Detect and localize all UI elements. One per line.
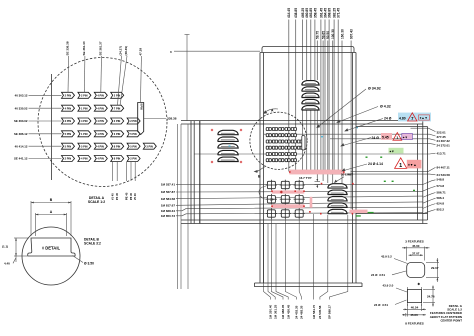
svg-text:1M 817.67: 1M 817.67 xyxy=(161,203,176,207)
top rotated dimension labels group 1 xyxy=(287,8,340,18)
dimension B xyxy=(31,201,71,236)
svg-text:84 407.11: 84 407.11 xyxy=(437,166,451,170)
left height dims of detail B xyxy=(14,238,29,262)
pink patch right xyxy=(350,210,368,213)
338.38 label right of detail A xyxy=(144,118,166,120)
svg-text:358.45: 358.45 xyxy=(313,8,317,18)
flat pattern outline: horizontal band edges xyxy=(181,121,428,224)
svg-text:#1 45: #1 45 xyxy=(111,193,115,200)
svg-text:24 Ø 3.51: 24 Ø 3.51 xyxy=(371,273,385,277)
pin tag grid in detail A xyxy=(62,92,157,161)
svg-text:24 Ø: 24 Ø xyxy=(372,136,380,140)
svg-text:40 303.12: 40 303.12 xyxy=(15,94,28,98)
svg-text:2 PIN: 2 PIN xyxy=(114,119,121,123)
svg-text:1 PIN: 1 PIN xyxy=(81,106,88,110)
svg-text:⌖▲▼: ⌖▲▼ xyxy=(419,116,428,120)
svg-text:4.80: 4.80 xyxy=(399,117,406,121)
svg-text:24 453.35: 24 453.35 xyxy=(295,305,299,319)
svg-text:40.54: 40.54 xyxy=(411,306,419,310)
arrow A top xyxy=(264,109,278,113)
svg-text:Ø 3.50: Ø 3.50 xyxy=(84,262,94,266)
svg-text:24 Ø 4.14: 24 Ø 4.14 xyxy=(368,162,383,166)
svg-text:1: 1 xyxy=(399,163,402,169)
svg-text:2 PIN: 2 PIN xyxy=(65,157,72,161)
svg-text:45.00: 45.00 xyxy=(410,313,418,317)
svg-text:5 PIN: 5 PIN xyxy=(130,132,137,136)
svg-text:414.45: 414.45 xyxy=(287,8,291,18)
svg-text:2 PIN: 2 PIN xyxy=(130,157,137,161)
svg-text:SE 441.12: SE 441.12 xyxy=(14,157,28,161)
svg-text:1M 388.35: 1M 388.35 xyxy=(281,304,285,319)
svg-text:586.71: 586.71 xyxy=(437,190,447,194)
svg-text:586.4: 586.4 xyxy=(437,196,445,200)
target square grid 3x3 xyxy=(266,180,305,219)
svg-text:P8 45: P8 45 xyxy=(129,192,133,200)
svg-text:P3 45: P3 45 xyxy=(115,192,119,200)
svg-text:3 PIN: 3 PIN xyxy=(65,119,72,123)
svg-text:4 PIN: 4 PIN xyxy=(81,157,88,161)
svg-text:2 PIN: 2 PIN xyxy=(65,93,72,97)
svg-text:37.07: 37.07 xyxy=(412,251,420,255)
svg-text:40 330.52: 40 330.52 xyxy=(15,106,28,110)
dia 3.50 leader xyxy=(73,256,84,263)
svg-text:4 PIN: 4 PIN xyxy=(97,119,104,123)
svg-text:2 PIN: 2 PIN xyxy=(130,119,137,123)
svg-text:(38.39): (38.39) xyxy=(124,46,128,56)
svg-text:(24.27): (24.27) xyxy=(119,46,123,56)
callout 24 dia 5.45 with triangle 1 (pink highlight) xyxy=(341,138,371,147)
svg-text:4.40: 4.40 xyxy=(4,262,10,266)
svg-text:4 PIN: 4 PIN xyxy=(97,93,104,97)
svg-text:1M 330.40: 1M 330.40 xyxy=(269,304,273,319)
svg-text:413.71: 413.71 xyxy=(437,152,447,156)
29.07 dim xyxy=(426,258,439,282)
svg-text:SCALE 1:2: SCALE 1:2 xyxy=(88,200,105,204)
bottom leaders of detail A xyxy=(113,162,136,181)
red corner marks left flap vents xyxy=(211,129,214,132)
svg-text:8 PIN: 8 PIN xyxy=(140,104,143,110)
svg-text:24.76: 24.76 xyxy=(427,294,435,298)
sharp feature square xyxy=(407,287,421,306)
bottom flap flange xyxy=(255,283,363,287)
base louver vents (lower right) xyxy=(328,184,348,188)
svg-text:100.30: 100.30 xyxy=(331,29,335,39)
svg-text:1M 436.45: 1M 436.45 xyxy=(286,304,290,319)
svg-text:SP 588.17: SP 588.17 xyxy=(328,305,332,319)
svg-text:438.85: 438.85 xyxy=(294,8,298,18)
svg-text:24 533.58: 24 533.58 xyxy=(437,173,451,177)
detail circle A on pattern xyxy=(250,112,307,169)
svg-text:PE 45: PE 45 xyxy=(125,192,129,200)
svg-text:⌖▼▲: ⌖▼▲ xyxy=(407,163,417,167)
dimension A xyxy=(36,213,67,236)
svg-text:24 372.01: 24 372.01 xyxy=(437,143,451,147)
svg-text:2 PIN: 2 PIN xyxy=(114,93,121,97)
svg-text:45.00: 45.00 xyxy=(412,244,420,248)
callout dia 4.32 xyxy=(337,107,378,123)
svg-text:1M 361.25: 1M 361.25 xyxy=(273,304,277,319)
svg-text:5 PIN: 5 PIN xyxy=(130,144,137,148)
detail A view circle xyxy=(38,58,167,187)
svg-text:29.07: 29.07 xyxy=(431,266,439,270)
top rotated labels of detail A xyxy=(66,41,143,55)
svg-text:4 PIN: 4 PIN xyxy=(97,106,104,110)
tall 8 PIN tag xyxy=(138,103,144,135)
svg-text:#5 46: #5 46 xyxy=(133,193,137,200)
svg-text:1M 850.73: 1M 850.73 xyxy=(161,214,176,218)
svg-text:1M 537.41: 1M 537.41 xyxy=(161,183,176,187)
svg-text:43.9 5.2: 43.9 5.2 xyxy=(381,255,392,259)
left row labels of detail A xyxy=(14,94,28,161)
top flap xyxy=(260,47,356,284)
svg-text:4 PIN: 4 PIN xyxy=(97,132,104,136)
right dimension label stack xyxy=(437,131,451,212)
svg-text:1 PIN: 1 PIN xyxy=(81,132,88,136)
detail B hat profile xyxy=(28,238,75,256)
left 1M dimension labels xyxy=(161,183,176,218)
top flap louver vents xyxy=(301,80,320,110)
pink band B xyxy=(272,190,305,193)
right stack leader lines xyxy=(194,128,436,214)
right flap lip xyxy=(356,121,428,224)
green GDT box xyxy=(389,148,404,154)
bottom rotated dimension labels xyxy=(269,304,332,319)
svg-text:5 PIN: 5 PIN xyxy=(65,132,72,136)
svg-text:574.8: 574.8 xyxy=(437,184,445,188)
svg-text:SE 363.02: SE 363.02 xyxy=(14,119,28,123)
left flap louver vents xyxy=(218,130,239,134)
vertical leader lines from top labels group1 xyxy=(289,20,338,173)
arrow B bottom xyxy=(255,166,267,171)
svg-text:5 PIN: 5 PIN xyxy=(81,144,88,148)
red micro marks on bands xyxy=(289,171,291,173)
svg-text:50 LIMIT: 50 LIMIT xyxy=(341,172,353,176)
svg-text:24 Ø 3.51: 24 Ø 3.51 xyxy=(374,303,388,307)
left dimension stack lines xyxy=(177,124,179,289)
datum line 0 xyxy=(174,50,260,52)
svg-text:3 PIN: 3 PIN xyxy=(146,144,153,148)
cyan micro marks xyxy=(229,145,231,146)
svg-text:40 414.12: 40 414.12 xyxy=(15,144,28,148)
svg-text:24 545.58: 24 545.58 xyxy=(318,305,322,319)
pink band A under detail circle xyxy=(290,170,345,174)
24.76 dim xyxy=(423,286,435,307)
svg-text:SE 361.40: SE 361.40 xyxy=(82,41,86,55)
rounded feature square xyxy=(407,263,425,278)
flap edge chord line in detail A xyxy=(51,74,53,180)
svg-text:5 PIN: 5 PIN xyxy=(65,144,72,148)
svg-text:◊ DETAIL: ◊ DETAIL xyxy=(42,246,60,251)
svg-text:4 PIN: 4 PIN xyxy=(97,144,104,148)
svg-text:1M 567.87: 1M 567.87 xyxy=(161,190,176,194)
svg-text:852.2: 852.2 xyxy=(437,207,445,211)
svg-text:8 PIN: 8 PIN xyxy=(114,144,121,148)
svg-text:4 PIN: 4 PIN xyxy=(81,119,88,123)
svg-text:47.38: 47.38 xyxy=(138,48,142,56)
long horizontal leader lines (left 1M labels to right stack) xyxy=(176,185,423,216)
svg-text:✱: ✱ xyxy=(418,282,421,286)
svg-text:59.75: 59.75 xyxy=(316,31,320,39)
svg-text:24 483.35: 24 483.35 xyxy=(300,305,304,319)
svg-text:368.85: 368.85 xyxy=(328,8,332,18)
svg-text:907.43: 907.43 xyxy=(349,29,353,39)
svg-text:43.9 2.0: 43.9 2.0 xyxy=(383,284,394,288)
svg-text:Ø 4.32: Ø 4.32 xyxy=(380,105,391,109)
svg-text:SE 386.12: SE 386.12 xyxy=(14,132,28,136)
green micro marks xyxy=(366,157,368,158)
svg-text:16.7 TYP: 16.7 TYP xyxy=(299,176,312,180)
svg-text:SE 336.38: SE 336.38 xyxy=(66,41,70,55)
svg-text:2 PIN: 2 PIN xyxy=(81,93,88,97)
detail B view circle xyxy=(22,227,80,285)
svg-text:(1.1): (1.1) xyxy=(2,245,8,249)
vertical leader lines from top labels group2 xyxy=(317,41,351,210)
svg-text:Ø 34.92: Ø 34.92 xyxy=(368,87,381,91)
svg-text:548.8: 548.8 xyxy=(437,178,445,182)
svg-text:4 PIN: 4 PIN xyxy=(65,106,72,110)
DETAIL G title block xyxy=(430,304,463,322)
top rotated dimension labels group 2 xyxy=(316,29,354,39)
svg-text:3 PIN: 3 PIN xyxy=(114,132,121,136)
small stadium hole grid inside detail circle xyxy=(266,128,305,162)
svg-text:8 PIN: 8 PIN xyxy=(114,157,121,161)
svg-text:⌖▼: ⌖▼ xyxy=(389,149,395,153)
svg-text:7 PIN: 7 PIN xyxy=(114,106,121,110)
40.54 and 45.00 dims xyxy=(402,304,426,317)
svg-text:SE 361.37: SE 361.37 xyxy=(99,41,103,55)
svg-text:338.38: 338.38 xyxy=(167,116,177,120)
svg-text:371.45: 371.45 xyxy=(337,8,341,18)
svg-text:8 FEATURES: 8 FEATURES xyxy=(405,322,423,326)
svg-text:160.30: 160.30 xyxy=(340,29,344,39)
svg-text:1M 581.70: 1M 581.70 xyxy=(312,304,316,319)
svg-text:24 Ø: 24 Ø xyxy=(384,117,392,121)
leader arc joining rows xyxy=(259,186,273,199)
svg-text:SCALE 3:2: SCALE 3:2 xyxy=(84,242,101,246)
svg-text:5.45: 5.45 xyxy=(382,136,389,140)
svg-text:59.65: 59.65 xyxy=(321,31,325,39)
svg-text:3 FEATURES: 3 FEATURES xyxy=(405,240,423,244)
svg-text:⌖▼: ⌖▼ xyxy=(402,135,408,139)
callout 24 dia 4.80 with triangle 7 (blue highlight) xyxy=(345,119,383,132)
pink band C xyxy=(272,204,305,208)
svg-text:CENTER POINT: CENTER POINT xyxy=(440,318,462,322)
svg-text:4 PIN: 4 PIN xyxy=(97,157,104,161)
callout 24 dia 4.14 with triangle 1 (red highlight) xyxy=(342,164,367,171)
leader lines from bottom labels xyxy=(264,214,348,300)
pink cell segments xyxy=(310,197,313,208)
left flap lip xyxy=(191,121,200,224)
svg-text:1M 584.58: 1M 584.58 xyxy=(161,197,176,201)
callout dia 34.92 xyxy=(317,89,366,128)
svg-text:1M 828.34: 1M 828.34 xyxy=(161,209,176,213)
svg-text:90.50: 90.50 xyxy=(326,31,330,39)
svg-text:624.8: 624.8 xyxy=(437,202,445,206)
